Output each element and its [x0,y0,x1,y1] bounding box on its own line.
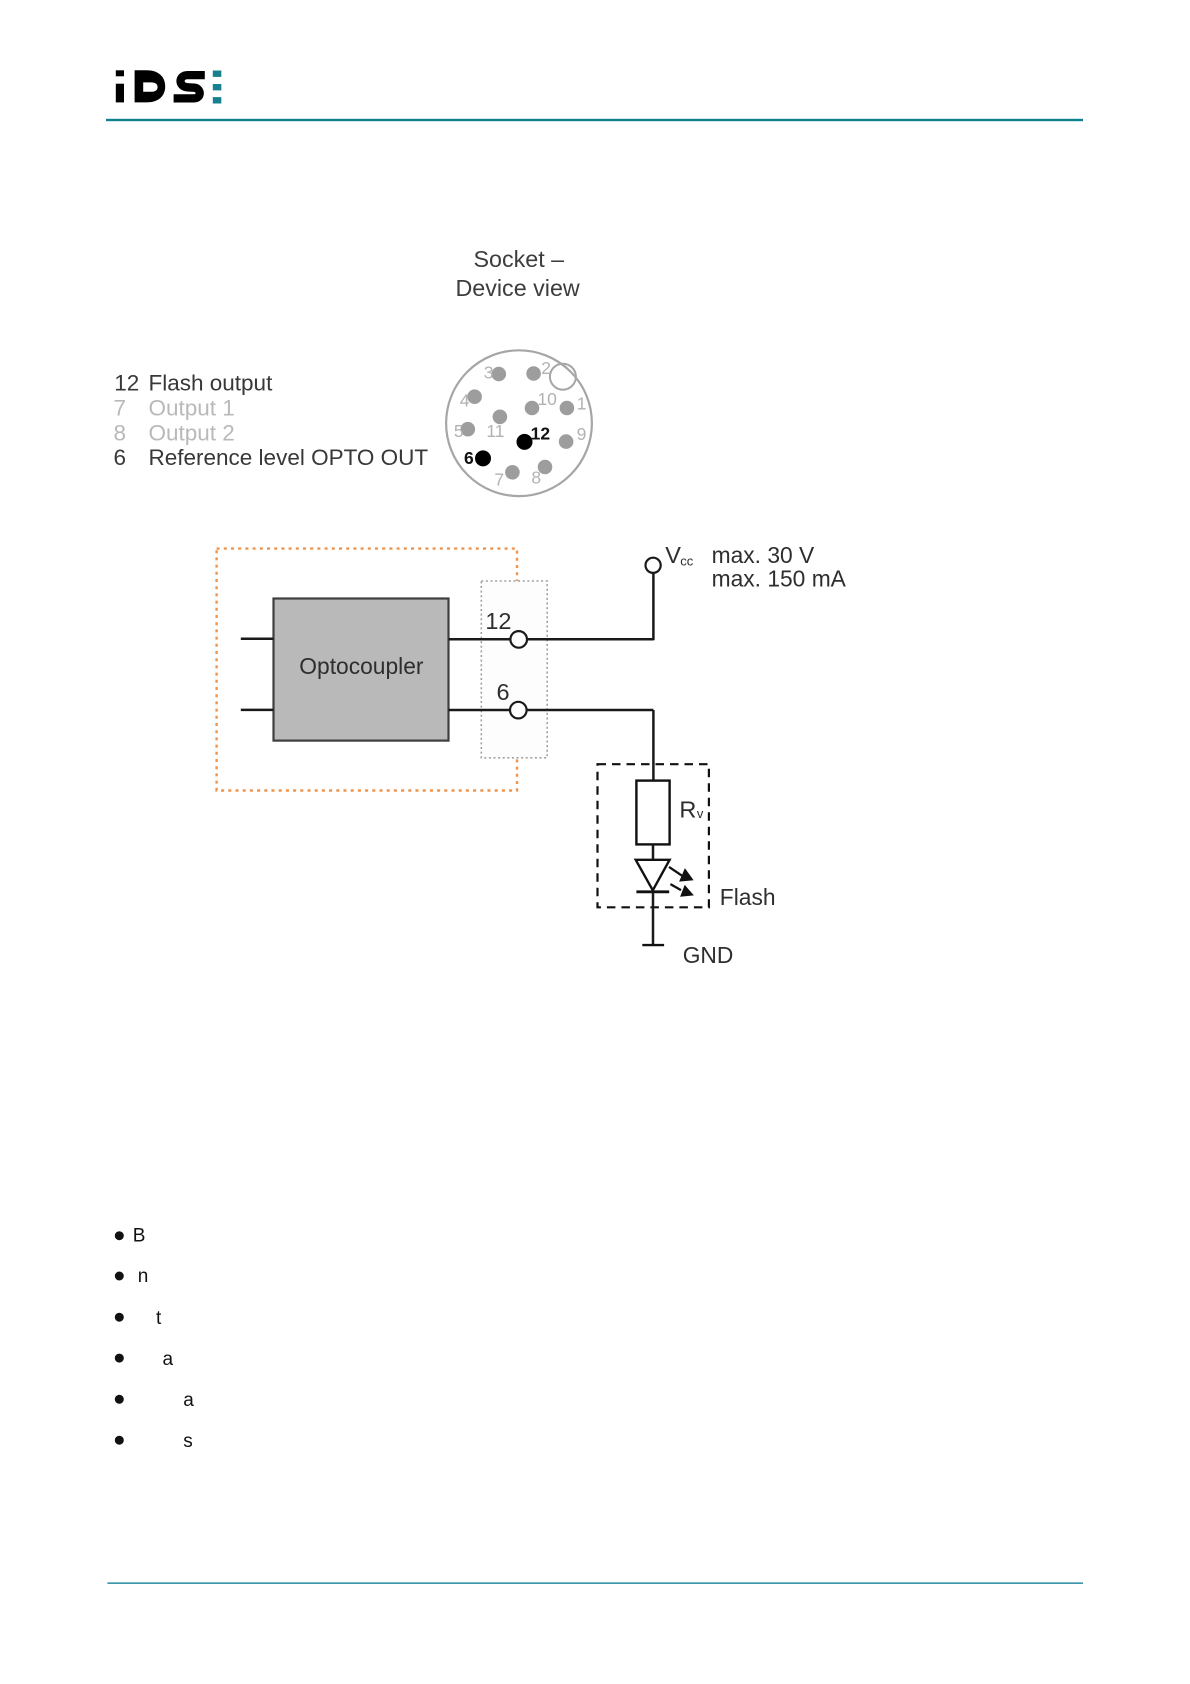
bullet item 2 [115,1272,124,1281]
pin 6 terminal circle [510,702,527,719]
svg-text:11: 11 [486,421,504,441]
bullet item 1 [115,1231,124,1240]
logo teal squares [213,71,222,104]
header rule [106,119,1083,121]
svg-text:6: 6 [464,448,474,468]
svg-text:Optocoupler: Optocoupler [299,653,424,679]
svg-text:6: 6 [114,445,127,470]
svg-text:7: 7 [114,396,127,421]
bullet item 4 [115,1354,124,1363]
pin 7 [494,465,519,490]
camera-side dashed boundary (orange) [217,549,517,791]
svg-text:n: n [138,1266,149,1287]
bullet item 3 [115,1313,124,1322]
LED arrow 2 [670,884,694,897]
svg-text:8: 8 [114,420,127,445]
Vcc rating text [712,542,847,591]
pin 6 (black) [464,448,491,468]
legend pin 8 Output 2 [114,420,235,445]
connector keyway notch [550,364,576,390]
wire: left stub to optocoupler input 2 [241,709,274,712]
connector outline [446,350,592,496]
svg-text:s: s [183,1431,193,1452]
svg-text:Output 2: Output 2 [149,420,235,445]
legend pin 6 Reference level OPTO OUT [114,445,429,470]
svg-text:Flash: Flash [720,884,776,910]
IDS logo [116,70,205,102]
svg-text:1: 1 [577,394,587,414]
pin 2 [526,358,551,381]
pin 5 [454,421,475,441]
pin 12 (black) [517,424,551,450]
legend pin 12 Flash output [114,371,273,396]
svg-text:a: a [183,1390,194,1411]
wire: optocoupler pin 12 to Vcc branch [449,638,654,641]
pin 11 [486,410,507,441]
wire: Vcc vertical drop [652,573,655,641]
svg-text:B: B [133,1225,146,1246]
svg-text:Reference level OPTO OUT: Reference level OPTO OUT [149,445,429,470]
pin 3 [484,363,506,383]
svg-text:a: a [163,1349,174,1370]
svg-text:10: 10 [537,389,557,409]
resistor Rv [636,781,704,845]
pin 1 [560,394,587,416]
svg-text:8: 8 [531,467,541,487]
svg-text:2: 2 [541,358,551,378]
svg-text:max. 150 mA: max. 150 mA [712,565,847,591]
legend pin 7 Output 1 [114,396,235,421]
caption: Socket - Device view [455,246,579,301]
svg-text:7: 7 [494,470,504,490]
pin 9 [559,424,587,449]
flash dashed box [598,764,709,907]
wire: pin6 branch down to resistor [652,710,655,781]
footer rule [107,1582,1083,1584]
svg-text:12: 12 [485,608,511,634]
bullet list [115,1225,195,1452]
svg-text:6: 6 [497,679,510,705]
wire: LED to GND [652,892,655,945]
svg-text:4: 4 [460,391,470,411]
svg-text:V: V [665,542,681,568]
wire: resistor to LED [652,844,655,860]
svg-text:9: 9 [577,424,587,444]
svg-text:GND: GND [683,942,734,968]
svg-text:Output 1: Output 1 [149,396,235,421]
LED arrow 1 [669,867,694,882]
pin 4 [460,389,482,410]
svg-text:Device view: Device view [455,275,579,301]
wire: optocoupler pin 6 to flash branch [449,709,654,712]
svg-text:R: R [679,797,696,823]
optocoupler box U1 [274,599,449,741]
svg-text:12: 12 [531,424,551,444]
bullet item 5 [115,1395,124,1404]
Vcc label [665,542,694,568]
Vcc terminal [646,558,661,573]
bullet item 6 [115,1436,124,1445]
svg-text:Flash output: Flash output [149,371,274,396]
svg-text:t: t [156,1308,162,1329]
svg-text:3: 3 [484,363,494,383]
svg-text:max. 30 V: max. 30 V [712,542,815,568]
LED D1 [636,860,670,892]
svg-text:v: v [697,806,704,821]
pin 8 [531,460,552,488]
svg-text:cc: cc [680,554,694,569]
svg-text:12: 12 [114,371,139,396]
pin 10 [525,389,557,415]
svg-text:Socket –: Socket – [473,246,564,272]
pin 12 terminal circle [510,631,527,648]
ground [642,944,664,946]
wire: left stub to optocoupler input 1 [241,638,274,641]
svg-text:5: 5 [454,421,464,441]
connector dotted box [481,581,547,758]
